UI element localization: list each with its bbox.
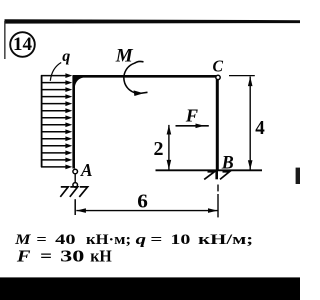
dimension 4: vertical line with arrows — [248, 77, 253, 170]
svg-text:B: B — [221, 152, 234, 173]
dimension 2: vertical line with arrows — [167, 125, 172, 170]
member: left column from node A up to frame corner — [72, 76, 75, 169]
dimension 2 label — [154, 138, 164, 160]
hinge circle at node C — [216, 75, 220, 79]
bottom black band (scan artifact) — [0, 277, 300, 300]
svg-text:C: C — [213, 56, 224, 75]
svg-text:14: 14 — [13, 34, 33, 55]
member: horizontal beam from corner to node C — [73, 75, 218, 78]
node C label — [213, 56, 224, 75]
right edge blob (scan artifact) — [296, 168, 300, 184]
dimension 6: horizontal line with arrows — [76, 208, 217, 213]
svg-text:M: M — [115, 45, 134, 66]
moment M arc with arrowhead — [124, 61, 148, 96]
support B hatching — [204, 171, 229, 180]
svg-text:4: 4 — [255, 117, 264, 139]
support A link rod — [74, 174, 76, 182]
force F arrow — [176, 124, 209, 129]
svg-text:6: 6 — [137, 191, 148, 213]
leader line from q to load — [50, 63, 61, 81]
given data text line 1 — [14, 232, 253, 248]
svg-text:A: A — [80, 160, 92, 180]
problem number badge 14 — [10, 32, 35, 57]
support A hinge circle lower — [73, 183, 78, 188]
dimension 4 label — [255, 117, 264, 139]
left page edge line (scan artifact) — [4, 21, 5, 59]
moment M label — [115, 45, 134, 66]
corner fillet at top-left frame corner — [75, 78, 83, 87]
top page rule (scan artifact) — [5, 19, 301, 23]
member: right column from node C down to node B — [216, 80, 219, 171]
svg-text:F: F — [185, 105, 198, 125]
node A label — [80, 160, 92, 180]
svg-text:F=30кН: F=30кН — [16, 246, 112, 265]
given data text line 2 — [16, 246, 112, 265]
dimension 4: extension line from C — [229, 75, 255, 77]
distributed load q: left border — [41, 75, 43, 167]
label q — [62, 48, 70, 65]
svg-text:2: 2 — [154, 138, 164, 160]
dimension 6: extension line below B (with gap) — [217, 185, 219, 218]
support A hinge circle upper — [73, 169, 78, 174]
force F label — [185, 105, 198, 125]
node B label — [221, 152, 234, 173]
support A ground hatching — [60, 187, 87, 197]
distributed load q: arrow rows — [41, 73, 72, 169]
svg-text:q: q — [62, 48, 70, 65]
dimension 6 label — [137, 191, 148, 213]
support B ground line — [156, 169, 263, 171]
dimension 6: extension line below A — [74, 199, 76, 215]
